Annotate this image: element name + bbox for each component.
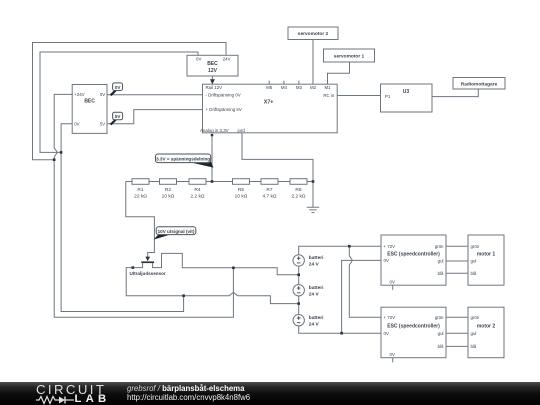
svg-text:0V: 0V	[100, 92, 105, 97]
resistor R4	[189, 179, 206, 185]
svg-text:grön: grön	[435, 244, 444, 249]
svg-text:P1: P1	[385, 94, 391, 99]
svg-text:RC in: RC in	[323, 93, 335, 98]
svg-text:4.7 kΩ: 4.7 kΩ	[263, 194, 277, 200]
svg-text:- Driftspänning 0V: - Driftspänning 0V	[206, 92, 241, 97]
svg-text:batteri: batteri	[309, 255, 324, 261]
svg-text:M5: M5	[266, 85, 273, 90]
svg-text:5V: 5V	[100, 121, 105, 126]
footer title	[127, 384, 244, 393]
svg-text:grön: grön	[471, 244, 480, 249]
svg-text:R8: R8	[295, 187, 301, 193]
battery V1 plus minus	[297, 256, 301, 263]
svg-text:0V: 0V	[196, 56, 201, 61]
svg-text:10V utsignal (vit): 10V utsignal (vit)	[158, 229, 195, 234]
flag 0V	[111, 83, 123, 95]
svg-text:grön: grön	[471, 315, 480, 320]
wire servomotor2 to M2	[312, 40, 314, 85]
svg-text:0V: 0V	[384, 258, 389, 263]
wire ESC2 motor2 grön	[446, 316, 468, 318]
box servomotor 1	[324, 49, 375, 62]
battery V3 plus minus	[297, 316, 301, 323]
arrow into sensor bar	[145, 257, 150, 262]
wire ESC2 motor2 gul	[446, 332, 468, 334]
svg-text:gul: gul	[471, 259, 477, 264]
svg-text:Rail 12V: Rail 12V	[206, 85, 223, 90]
wire 0V riser	[61, 124, 184, 312]
svg-text:2.2 kΩ: 2.2 kΩ	[292, 194, 306, 200]
resistor R2	[160, 179, 177, 185]
svg-text:batteri: batteri	[309, 315, 324, 321]
svg-text:blå: blå	[471, 271, 477, 276]
pin stub ESC1 0V bottom	[392, 285, 394, 290]
svg-text:gul: gul	[471, 331, 477, 336]
svg-text:ESC (speedcontroller): ESC (speedcontroller)	[387, 324, 440, 330]
ground	[307, 207, 319, 212]
wire battery2 to battery3	[298, 296, 300, 315]
battery V1	[293, 255, 304, 266]
svg-text:0V: 0V	[74, 121, 79, 126]
pin stub M5	[268, 81, 270, 85]
svg-text:motor 2: motor 2	[477, 324, 496, 330]
wire ESC1 motor1 blå	[446, 272, 468, 274]
svg-text:22 kΩ: 22 kΩ	[134, 194, 147, 200]
wire ESC2 motor2 blå	[446, 345, 468, 347]
svg-text:BEC: BEC	[207, 61, 218, 67]
wire battery3 bottom to ESC2 0V	[299, 326, 381, 333]
pin stub ESC2 0V bottom	[392, 358, 394, 363]
wire 0V top loop	[40, 52, 198, 152]
svg-text:Analog in 3,3V: Analog in 3,3V	[200, 128, 229, 133]
pin stub M3	[298, 81, 300, 85]
svg-text:24 V: 24 V	[309, 262, 320, 268]
box ESC1	[381, 235, 446, 285]
svg-text:12V: 12V	[208, 68, 218, 74]
svg-text:+24V: +24V	[74, 92, 84, 97]
sensor T-bar	[141, 261, 154, 263]
wire U3 to Radiomottagare	[432, 89, 478, 97]
svg-text:3.3V = spänningsdelning: 3.3V = spänningsdelning	[156, 157, 210, 162]
wire servomotor1 to M1	[328, 62, 350, 84]
svg-text:M1: M1	[324, 85, 331, 90]
svg-text:0V: 0V	[390, 352, 395, 357]
box motor1	[468, 235, 504, 285]
svg-text:grön: grön	[435, 315, 444, 320]
box servomotor 2	[288, 27, 338, 40]
wire Analog in 3.3V	[211, 135, 213, 182]
logo resistor-diode glyph	[36, 395, 76, 405]
flag 3.3V spänningsdelning	[156, 154, 214, 168]
wire battery1 top to ESC1 +72V	[299, 246, 381, 255]
svg-text:R7: R7	[266, 187, 272, 193]
svg-text:+ 72V: + 72V	[384, 244, 396, 249]
svg-text:U3: U3	[403, 89, 410, 95]
logo LAB	[75, 393, 111, 405]
wire sensor right leg to battery top junction	[153, 253, 299, 274]
wire battery1 to battery2	[298, 266, 300, 285]
svg-text:0V: 0V	[115, 85, 122, 90]
svg-text:5V: 5V	[115, 114, 122, 119]
wire ESC1 motor1 gul	[446, 260, 468, 262]
svg-text:X7+: X7+	[264, 99, 274, 105]
junction dots	[53, 158, 56, 161]
svg-text:Ultraljudssensor: Ultraljudssensor	[130, 271, 166, 276]
svg-text:blå: blå	[438, 344, 444, 349]
wire ESC1 motor1 grön	[446, 245, 468, 247]
resistor R1	[132, 179, 149, 185]
box U3	[381, 84, 433, 112]
svg-text:gul: gul	[438, 331, 444, 336]
svg-text:blå: blå	[471, 344, 477, 349]
svg-text:M3: M3	[296, 85, 303, 90]
svg-text:24 V: 24 V	[309, 292, 320, 298]
wire +24V riser	[54, 94, 233, 317]
battery V2 plus minus	[297, 286, 301, 293]
svg-text:0V: 0V	[390, 279, 395, 284]
resistor R5	[233, 179, 250, 185]
resistor R8	[290, 179, 307, 185]
svg-text:Radiomottagare: Radiomottagare	[461, 81, 498, 87]
wire jord to ground	[242, 133, 313, 208]
logo CIRCUIT	[36, 382, 106, 397]
svg-text:motor 1: motor 1	[477, 251, 496, 257]
footer url	[127, 393, 250, 402]
svg-text:blå: blå	[438, 271, 444, 276]
svg-text:servomotor 1: servomotor 1	[334, 54, 365, 60]
svg-text:R1: R1	[137, 187, 143, 193]
svg-text:jord: jord	[237, 128, 246, 133]
box motor2	[468, 307, 504, 358]
footer bar	[0, 382, 540, 405]
svg-text:BEC: BEC	[84, 99, 95, 105]
box ESC2	[381, 307, 446, 358]
svg-text:batteri: batteri	[309, 285, 324, 291]
svg-text:10 kΩ: 10 kΩ	[235, 194, 248, 200]
svg-text:0V: 0V	[384, 331, 389, 336]
box BEC 12V	[187, 55, 238, 76]
wire ESC1 0V down	[342, 260, 381, 333]
svg-text:gul: gul	[438, 259, 444, 264]
wire sensor left leg and 0V loop	[126, 263, 299, 304]
svg-text:+ Driftspänning 5V: + Driftspänning 5V	[206, 107, 242, 112]
wire 24V top loop	[33, 43, 227, 160]
battery V3	[293, 315, 304, 326]
box X7+	[203, 84, 338, 133]
svg-text:R5: R5	[238, 187, 244, 193]
wire R1 to sensor signal	[126, 182, 155, 258]
svg-text:servomotor 2: servomotor 2	[298, 31, 329, 37]
arrow rail12V into X7	[210, 79, 215, 84]
svg-text:2.2 kΩ: 2.2 kΩ	[191, 194, 205, 200]
wire resistor chain	[126, 181, 313, 183]
svg-text:ESC (speedcontroller): ESC (speedcontroller)	[387, 251, 440, 257]
box BEC	[72, 85, 107, 134]
box Radiomottagare	[453, 78, 505, 90]
svg-text:24 V: 24 V	[309, 321, 320, 327]
flag 10V utsignal	[154, 227, 196, 240]
wire BEC12V rail to X7	[211, 76, 213, 84]
svg-text:+ 72V: + 72V	[384, 315, 396, 320]
wire +72V to ESC2	[349, 246, 381, 317]
svg-text:24V: 24V	[223, 56, 231, 61]
pin stub M4	[283, 81, 285, 85]
svg-text:R2: R2	[165, 187, 171, 193]
wire BEC 0V to X7	[108, 94, 203, 96]
svg-text:M2: M2	[310, 85, 317, 90]
resistor R7	[261, 179, 278, 185]
svg-text:10 kΩ: 10 kΩ	[162, 194, 175, 200]
svg-text:R4: R4	[194, 187, 200, 193]
svg-text:M4: M4	[281, 85, 288, 90]
wire BEC 5V to X7	[108, 110, 203, 124]
flag 5V	[111, 112, 123, 124]
wire RC in to U3	[337, 95, 380, 97]
battery V2	[293, 285, 304, 296]
